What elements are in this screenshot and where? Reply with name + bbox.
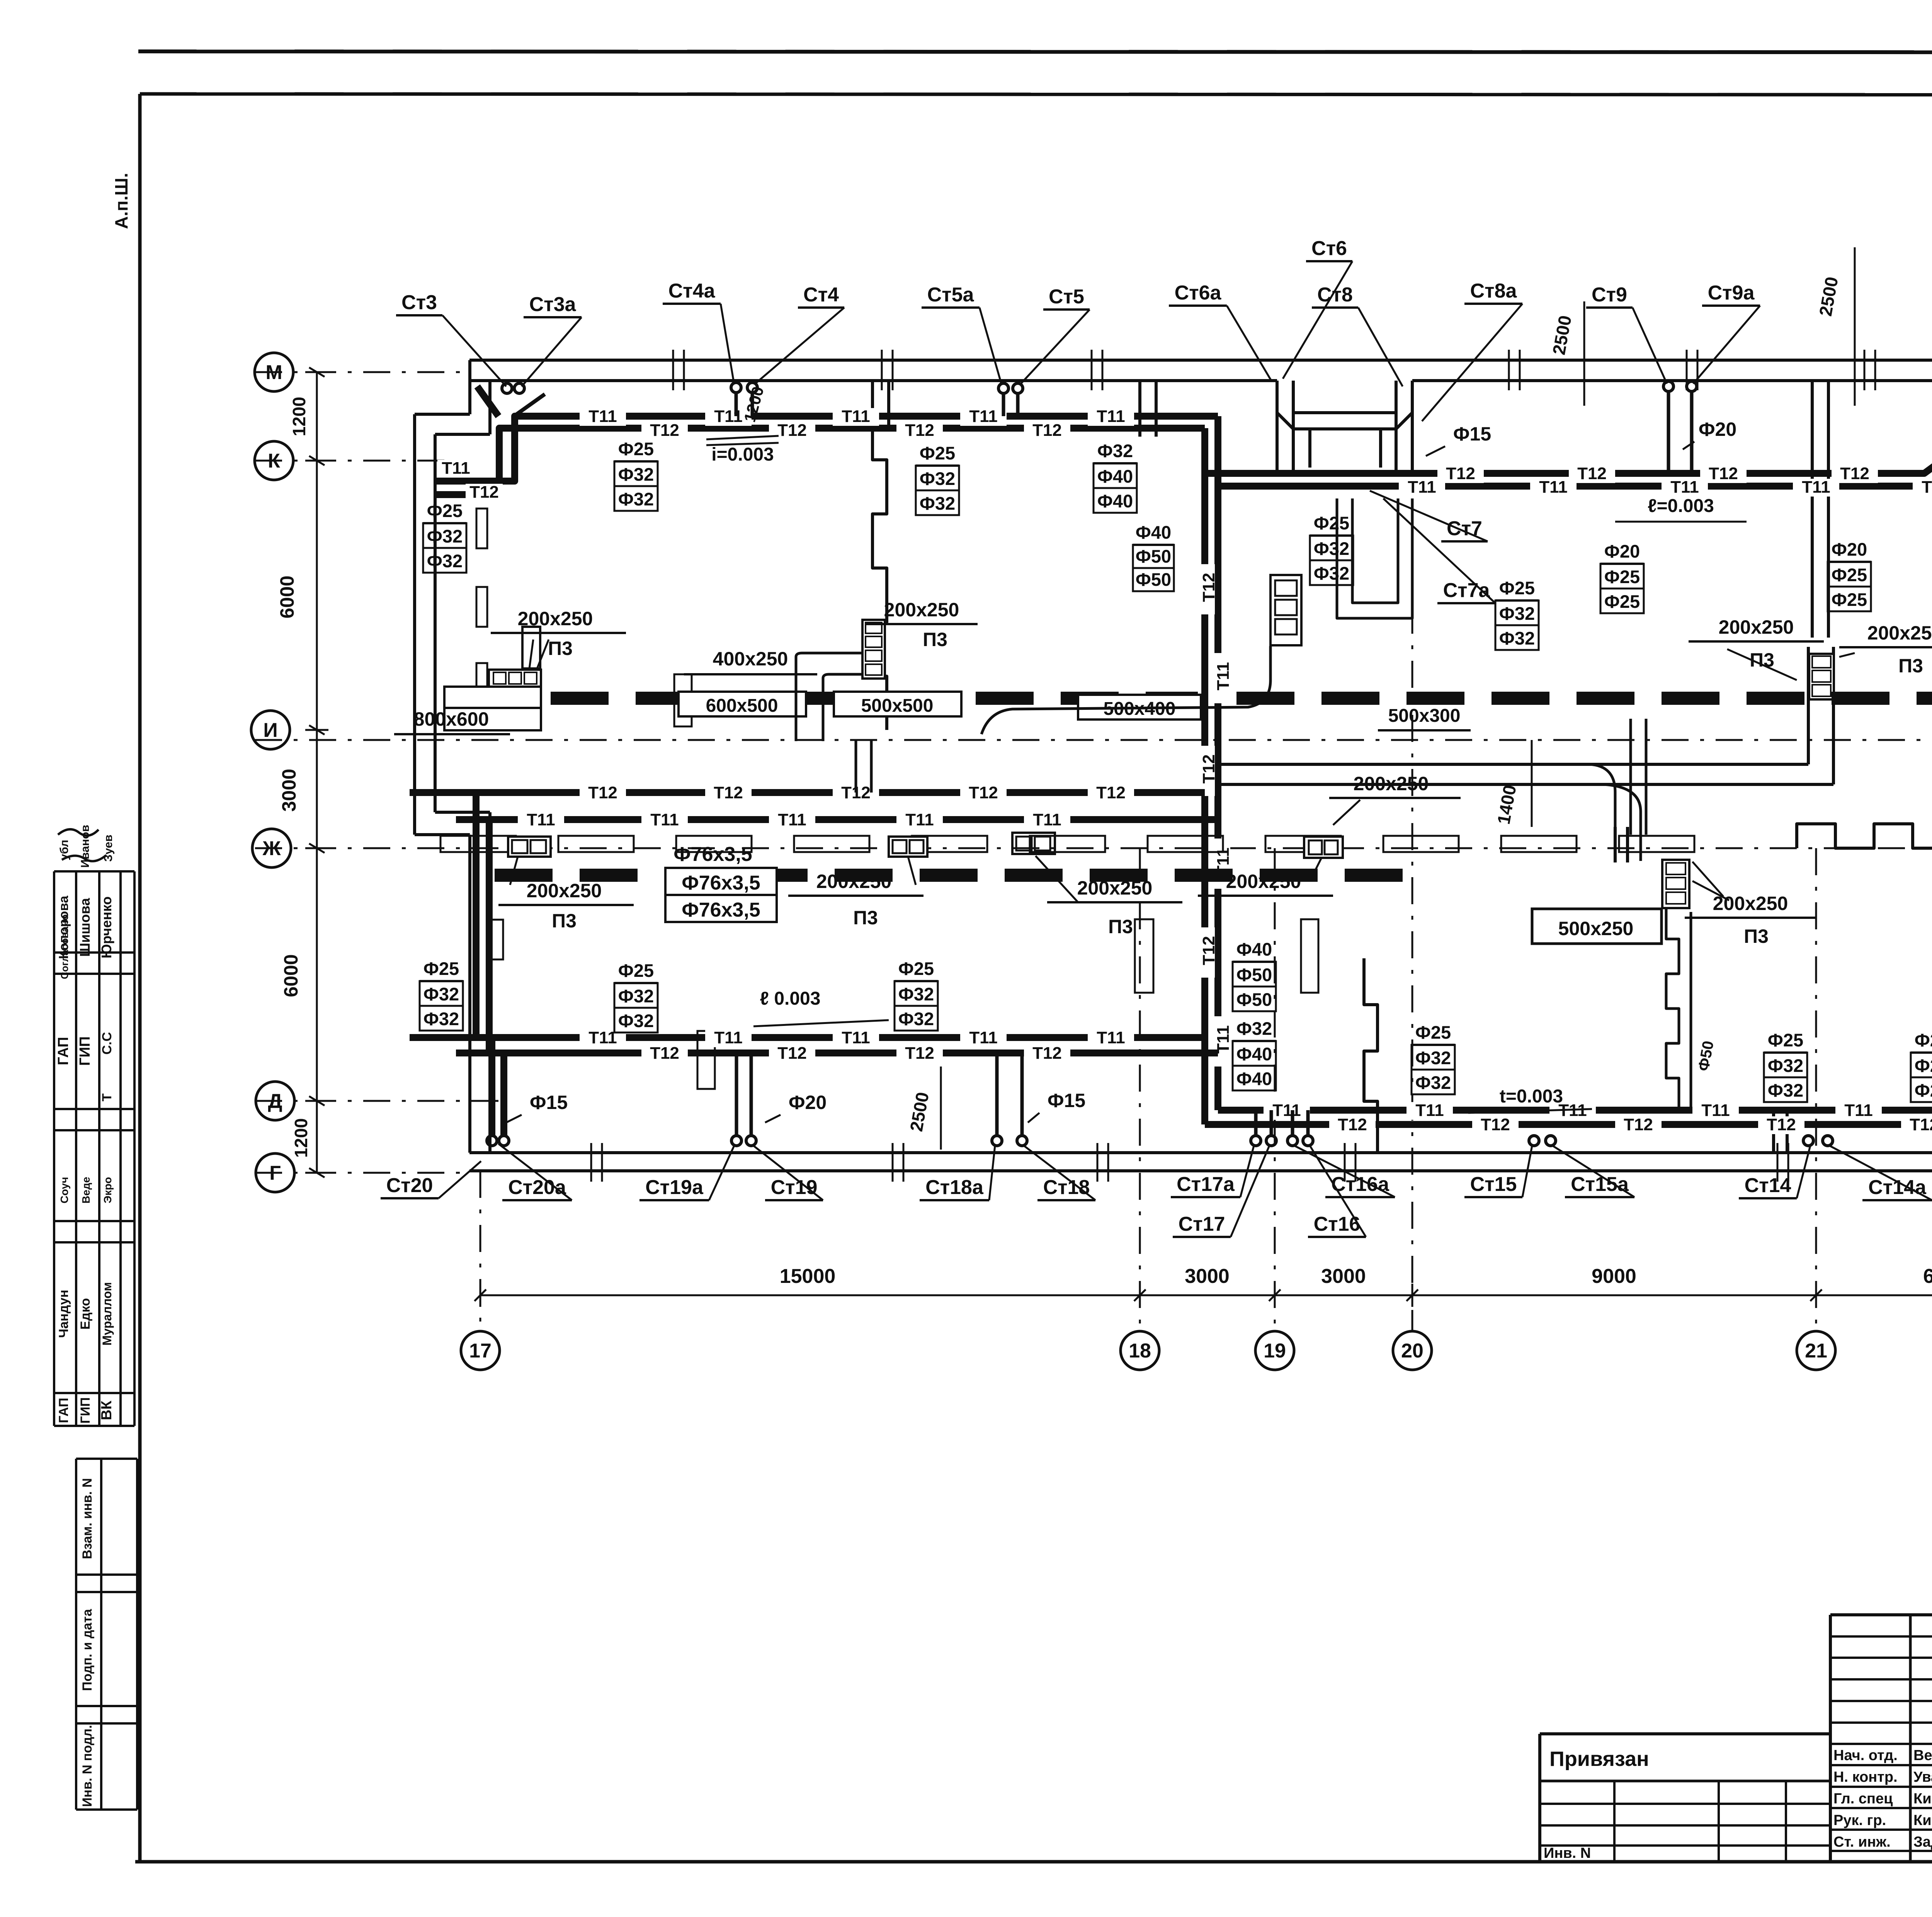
svg-text:П3: П3 bbox=[1108, 916, 1133, 937]
inner wall x4405 bottom bbox=[1772, 1110, 1775, 1153]
duct small box bottom-a bbox=[508, 837, 551, 857]
svg-text:9000: 9000 bbox=[1592, 1265, 1636, 1288]
bottom-left run T11 bbox=[410, 1034, 1205, 1041]
left wall with recess bbox=[468, 360, 471, 414]
svg-text:Т11: Т11 bbox=[842, 407, 870, 426]
svg-text:Ф76x3,5: Ф76x3,5 bbox=[673, 843, 752, 866]
grid line row М bbox=[255, 371, 469, 373]
left stamp lower table bbox=[75, 1459, 77, 1810]
inner wall x4180 lower bbox=[1614, 827, 1617, 862]
pilaster near row И bbox=[674, 674, 692, 726]
grid circle Д bbox=[256, 1082, 294, 1120]
svg-text:Ф25: Ф25 bbox=[1604, 566, 1640, 587]
duct drop elbow from horizontal pair bbox=[1590, 764, 1615, 861]
svg-text:500x300: 500x300 bbox=[1388, 706, 1461, 726]
svg-text:П3: П3 bbox=[548, 638, 573, 659]
svg-text:Ф25: Ф25 bbox=[427, 500, 463, 521]
svg-text:Т12: Т12 bbox=[650, 1044, 679, 1063]
grid vertical 21 bbox=[1815, 848, 1817, 1331]
svg-text:Киселева: Киселева bbox=[1913, 1812, 1932, 1829]
svg-text:Т: Т bbox=[100, 1093, 114, 1101]
svg-text:Т12: Т12 bbox=[1840, 464, 1869, 483]
pilasters bottom rooms bbox=[1135, 919, 1153, 993]
svg-text:600x500: 600x500 bbox=[706, 696, 778, 716]
duct drop pair x2215 bbox=[855, 740, 857, 793]
svg-text:ГИП: ГИП bbox=[78, 1397, 93, 1424]
svg-text:Задина: Задина bbox=[1913, 1834, 1932, 1850]
stair bay walls bbox=[1276, 381, 1279, 471]
svg-text:500x250: 500x250 bbox=[1558, 918, 1634, 939]
svg-text:i=0.003: i=0.003 bbox=[711, 444, 774, 465]
bottom dimension line bbox=[480, 1294, 1932, 1296]
svg-text:Т11: Т11 bbox=[650, 810, 679, 829]
svg-text:Т11: Т11 bbox=[442, 459, 470, 478]
svg-text:П3: П3 bbox=[1744, 925, 1769, 947]
svg-text:Т12: Т12 bbox=[1032, 421, 1062, 440]
duct vertical elbow right bbox=[1629, 719, 1632, 835]
svg-text:П3: П3 bbox=[1898, 655, 1923, 677]
svg-text:Т12: Т12 bbox=[905, 421, 934, 440]
svg-text:Ф32: Ф32 bbox=[423, 1009, 459, 1029]
title block central signature table bbox=[1829, 1615, 1832, 1862]
svg-text:ℓ 0.003: ℓ 0.003 bbox=[760, 988, 821, 1009]
bottom-right run labels bbox=[1264, 1102, 1310, 1120]
pipe T11/T12 top-right labels bbox=[1437, 465, 1484, 483]
svg-text:Т11: Т11 bbox=[778, 810, 806, 829]
svg-text:Т11: Т11 bbox=[1033, 810, 1061, 829]
svg-text:Т12: Т12 bbox=[1096, 783, 1126, 802]
svg-text:Т12: Т12 bbox=[1709, 464, 1738, 483]
svg-text:Ст8а: Ст8а bbox=[1470, 280, 1517, 302]
bottom-right run T12 bbox=[1205, 1121, 1932, 1128]
svg-text:Т11: Т11 bbox=[1670, 478, 1699, 497]
svg-text:Т11: Т11 bbox=[1539, 478, 1567, 497]
svg-text:Рук. гр.: Рук. гр. bbox=[1833, 1812, 1886, 1829]
duct label 500x250 boxed bbox=[1532, 909, 1662, 944]
svg-text:Ф20: Ф20 bbox=[1915, 1030, 1932, 1050]
middle run T11 left half bbox=[456, 816, 1218, 823]
svg-text:Ст20а: Ст20а bbox=[508, 1176, 566, 1199]
handwritten marks above stamp bbox=[58, 829, 99, 835]
svg-text:200x250: 200x250 bbox=[884, 599, 959, 621]
svg-text:Ф32: Ф32 bbox=[427, 526, 463, 546]
duct dashed row И right bbox=[1236, 692, 1932, 705]
middle run T12 left half bbox=[410, 789, 1205, 796]
svg-text:Ф32: Ф32 bbox=[1236, 1018, 1272, 1039]
svg-text:Ф32: Ф32 bbox=[618, 464, 654, 485]
svg-text:Ф40: Ф40 bbox=[1236, 939, 1272, 959]
svg-text:Т11: Т11 bbox=[527, 810, 555, 829]
svg-text:Привязан: Привязан bbox=[1549, 1747, 1649, 1771]
outer top edge line bbox=[138, 51, 1932, 53]
grid circle К bbox=[255, 441, 293, 480]
svg-text:Ф15: Ф15 bbox=[1453, 423, 1491, 445]
central vertical pipe pair bbox=[1201, 428, 1208, 1124]
svg-text:Ф50: Ф50 bbox=[1136, 546, 1171, 566]
svg-text:Т11: Т11 bbox=[969, 407, 997, 426]
duct elbow path center bbox=[981, 646, 1270, 734]
svg-text:1200: 1200 bbox=[291, 1118, 311, 1158]
svg-text:200x250: 200x250 bbox=[1077, 877, 1153, 899]
bottom-right run T11 bbox=[1218, 1107, 1932, 1114]
svg-text:18: 18 bbox=[1129, 1340, 1151, 1362]
svg-text:Т11: Т11 bbox=[969, 1028, 997, 1047]
svg-text:ВК: ВК bbox=[99, 1400, 115, 1420]
svg-text:Ф32: Ф32 bbox=[618, 489, 654, 509]
svg-text:200x250: 200x250 bbox=[1713, 893, 1788, 914]
svg-text:Уварова: Уварова bbox=[1913, 1769, 1932, 1785]
inner wall between rooms x2258 jagged bbox=[872, 428, 887, 730]
svg-text:Ст8: Ст8 bbox=[1317, 284, 1353, 306]
central vertical labels bbox=[1198, 564, 1215, 614]
svg-text:Т11: Т11 bbox=[1844, 1101, 1872, 1120]
wall ticks bottom wall bbox=[590, 1143, 592, 1182]
svg-text:Т12: Т12 bbox=[777, 421, 807, 440]
svg-text:Ст16а: Ст16а bbox=[1331, 1173, 1389, 1196]
svg-text:Ф32: Ф32 bbox=[427, 551, 463, 571]
svg-text:Ф32: Ф32 bbox=[920, 468, 955, 489]
svg-text:Ст9: Ст9 bbox=[1592, 284, 1627, 306]
svg-text:Ст14а: Ст14а bbox=[1868, 1176, 1927, 1199]
svg-text:Т12: Т12 bbox=[588, 783, 617, 802]
riser stubs bottom-right bbox=[1254, 1110, 1258, 1136]
svg-text:17: 17 bbox=[469, 1340, 492, 1362]
svg-text:Т12: Т12 bbox=[1910, 1115, 1932, 1134]
svg-text:19: 19 bbox=[1264, 1340, 1286, 1362]
svg-text:ГИП: ГИП bbox=[77, 1036, 93, 1066]
svg-text:6000: 6000 bbox=[1923, 1265, 1932, 1288]
svg-text:Ф32: Ф32 bbox=[898, 984, 934, 1004]
duct elbow 400x250 bbox=[795, 657, 798, 741]
svg-text:Т11: Т11 bbox=[1272, 1101, 1301, 1120]
svg-text:6000: 6000 bbox=[276, 575, 298, 618]
svg-text:1200: 1200 bbox=[289, 397, 309, 436]
svg-text:Т12: Т12 bbox=[1199, 573, 1218, 602]
svg-text:Т12: Т12 bbox=[1199, 754, 1218, 784]
svg-text:Т11: Т11 bbox=[905, 810, 934, 829]
inner wall right x4690 bbox=[1811, 381, 1814, 638]
svg-text:Ф25: Ф25 bbox=[1832, 565, 1867, 585]
svg-text:Ф25: Ф25 bbox=[618, 960, 654, 981]
svg-text:Ф25: Ф25 bbox=[898, 958, 934, 979]
svg-text:Т12: Т12 bbox=[1767, 1115, 1796, 1134]
svg-text:Т11: Т11 bbox=[714, 407, 742, 426]
svg-text:Шишова: Шишова bbox=[77, 898, 93, 957]
svg-text:К: К bbox=[268, 450, 280, 472]
svg-text:Т12: Т12 bbox=[1032, 1044, 1062, 1063]
svg-text:Ф40: Ф40 bbox=[1097, 466, 1133, 486]
svg-text:3000: 3000 bbox=[1185, 1265, 1230, 1288]
bottom-left run risers to wall bbox=[488, 1038, 495, 1136]
svg-text:Т11: Т11 bbox=[1097, 1028, 1125, 1047]
svg-text:Ф25: Ф25 bbox=[1499, 578, 1535, 598]
svg-text:200x250: 200x250 bbox=[1354, 773, 1429, 794]
svg-text:Ф20: Ф20 bbox=[1604, 541, 1640, 561]
svg-text:Ф32: Ф32 bbox=[1314, 538, 1349, 559]
svg-text:Ф20: Ф20 bbox=[1699, 418, 1736, 440]
svg-text:Ст18: Ст18 bbox=[1043, 1176, 1090, 1199]
grid line row Д dash-dot bbox=[255, 1100, 498, 1102]
svg-text:Ст4: Ст4 bbox=[803, 284, 839, 306]
pipe T12 top-right run with corner riser to Ст10 bbox=[1205, 383, 1932, 473]
svg-text:Инв. N подл.: Инв. N подл. bbox=[80, 1725, 95, 1807]
svg-text:Ф50: Ф50 bbox=[1236, 989, 1272, 1010]
svg-text:Ф25: Ф25 bbox=[1915, 1080, 1932, 1101]
svg-text:200x250: 200x250 bbox=[518, 608, 593, 629]
duct small box bottom-b bbox=[889, 837, 927, 857]
svg-text:Н. контр.: Н. контр. bbox=[1833, 1769, 1898, 1785]
П3 riser box right-center bbox=[1662, 860, 1689, 908]
svg-text:Ф25: Ф25 bbox=[1314, 513, 1349, 533]
svg-text:Т11: Т11 bbox=[1097, 407, 1125, 426]
П3 box on duct x4680 bbox=[1809, 654, 1834, 699]
svg-text:Ф32: Ф32 bbox=[1314, 563, 1349, 583]
bottom grid circle 18 bbox=[1121, 1331, 1159, 1370]
svg-text:Ф32: Ф32 bbox=[618, 1010, 654, 1031]
grid circle И bbox=[251, 711, 290, 749]
svg-text:Ф76x3,5: Ф76x3,5 bbox=[682, 899, 760, 921]
svg-text:Ф25: Ф25 bbox=[920, 443, 955, 463]
svg-text:Ф32: Ф32 bbox=[423, 984, 459, 1004]
svg-text:Ст5а: Ст5а bbox=[927, 284, 975, 306]
grid circle Г bbox=[256, 1153, 294, 1192]
svg-text:Т11: Т11 bbox=[1922, 478, 1932, 497]
duct label 500x500 bbox=[834, 692, 961, 716]
svg-text:Согласовано: Согласовано bbox=[59, 914, 70, 979]
svg-text:Ф25: Ф25 bbox=[1915, 1055, 1932, 1076]
svg-text:Ст3: Ст3 bbox=[401, 291, 437, 314]
svg-text:Ф40: Ф40 bbox=[1097, 491, 1133, 511]
svg-text:Ф25: Ф25 bbox=[1415, 1022, 1451, 1043]
top-left corner diagonal pipe bbox=[477, 386, 498, 416]
duct small box bottom-c bbox=[1012, 833, 1055, 854]
grid vertical 18 bbox=[1139, 848, 1141, 1331]
svg-text:И: И bbox=[263, 719, 277, 742]
svg-text:Т12: Т12 bbox=[1199, 936, 1218, 965]
pipe T12 top-left run bbox=[435, 428, 1205, 495]
svg-text:П3: П3 bbox=[923, 629, 947, 650]
svg-text:200x250: 200x250 bbox=[1867, 622, 1932, 644]
middle-left run labels bbox=[580, 784, 626, 802]
svg-text:Подп. и дата: Подп. и дата bbox=[80, 1609, 95, 1691]
duct outline rects row Ж bbox=[440, 836, 516, 852]
svg-text:6000: 6000 bbox=[280, 954, 302, 997]
grid line row К bbox=[255, 460, 448, 462]
svg-text:Ст4а: Ст4а bbox=[668, 280, 716, 302]
svg-text:15000: 15000 bbox=[780, 1265, 836, 1288]
svg-text:Юрченко: Юрченко bbox=[99, 896, 114, 958]
svg-text:Ф20: Ф20 bbox=[789, 1092, 827, 1113]
grid line row И bbox=[255, 739, 1932, 741]
pilasters left wall bbox=[476, 509, 487, 548]
svg-text:Т11: Т11 bbox=[588, 1028, 617, 1047]
title block attach table Привязан bbox=[1540, 1732, 1830, 1735]
svg-text:Едко: Едко bbox=[78, 1298, 93, 1330]
grid circle М bbox=[255, 353, 293, 391]
svg-text:Ст19: Ст19 bbox=[771, 1176, 818, 1199]
svg-text:Ф32: Ф32 bbox=[618, 986, 654, 1006]
duct dashed row below Ж bbox=[495, 869, 1410, 882]
svg-text:Т12: Т12 bbox=[1624, 1115, 1653, 1134]
grid line row Г bbox=[255, 1172, 469, 1174]
svg-text:Ф32: Ф32 bbox=[1415, 1048, 1451, 1068]
svg-text:Г: Г bbox=[269, 1162, 281, 1184]
svg-text:400x250: 400x250 bbox=[713, 648, 788, 670]
svg-text:Т11: Т11 bbox=[588, 407, 617, 426]
riser detail near Ст18 bbox=[995, 1053, 999, 1136]
svg-text:Гл. спец: Гл. спец bbox=[1833, 1791, 1893, 1807]
svg-text:Кирпикова: Кирпикова bbox=[1913, 1791, 1932, 1807]
svg-text:21: 21 bbox=[1805, 1340, 1827, 1362]
svg-text:Т12: Т12 bbox=[650, 421, 679, 440]
duct dashed row И left bbox=[551, 692, 1198, 705]
svg-text:Веде: Веде bbox=[80, 1177, 92, 1203]
svg-text:Ф32: Ф32 bbox=[1499, 603, 1535, 624]
svg-text:200x250: 200x250 bbox=[527, 880, 602, 902]
svg-text:Ф50: Ф50 bbox=[1136, 569, 1171, 590]
svg-text:Нач. отд.: Нач. отд. bbox=[1833, 1747, 1898, 1764]
svg-text:Т11: Т11 bbox=[1802, 478, 1830, 497]
svg-text:Ст. инж.: Ст. инж. bbox=[1833, 1834, 1891, 1850]
svg-text:Ф20: Ф20 bbox=[1832, 539, 1867, 560]
left stamp upper table bbox=[53, 871, 55, 1426]
svg-text:Вепринцева: Вепринцева bbox=[1913, 1747, 1932, 1764]
svg-text:М: М bbox=[265, 361, 282, 384]
grid vertical 19 bbox=[1274, 848, 1276, 1331]
corner labels T11 T12 bbox=[437, 460, 474, 477]
svg-text:Ст17а: Ст17а bbox=[1177, 1173, 1235, 1196]
svg-text:ГАП: ГАП bbox=[56, 1398, 71, 1423]
svg-text:3000: 3000 bbox=[1321, 1265, 1366, 1288]
riser detail near Ст19 bbox=[735, 1053, 738, 1136]
svg-text:Ст6а: Ст6а bbox=[1175, 282, 1222, 304]
crenellated wall row Ж right bbox=[1797, 824, 1932, 848]
svg-text:800x600: 800x600 bbox=[414, 708, 489, 730]
grid vertical 17 bbox=[480, 1171, 481, 1331]
svg-text:Ст6: Ст6 bbox=[1311, 237, 1347, 260]
grid line row Ж bbox=[255, 847, 1932, 849]
svg-text:20: 20 bbox=[1401, 1340, 1423, 1362]
svg-text:Ф32: Ф32 bbox=[1768, 1080, 1803, 1101]
svg-text:Ф25: Ф25 bbox=[1832, 589, 1867, 610]
svg-text:Инв. N: Инв. N bbox=[1544, 1845, 1591, 1861]
svg-text:Т12: Т12 bbox=[1481, 1115, 1510, 1134]
top wall row M bbox=[469, 359, 1932, 362]
bottom grid circle 19 bbox=[1255, 1331, 1294, 1370]
riser stubs top wall circles bbox=[502, 383, 512, 393]
svg-text:Т12: Т12 bbox=[714, 783, 743, 802]
duct label 500x400 bbox=[1078, 695, 1201, 720]
svg-text:ГАП: ГАП bbox=[55, 1037, 71, 1065]
svg-text:Ф15: Ф15 bbox=[1048, 1090, 1085, 1111]
wall ticks top wall bbox=[672, 350, 674, 390]
duct horizontal pair right of center bbox=[1221, 763, 1808, 766]
svg-text:ℓ=0.003: ℓ=0.003 bbox=[1648, 496, 1714, 516]
svg-text:Ф15: Ф15 bbox=[530, 1092, 568, 1113]
inner wall stub x2950 bbox=[1138, 381, 1141, 437]
svg-text:Ф32: Ф32 bbox=[1768, 1055, 1803, 1076]
П3 riser box col18 bbox=[862, 620, 885, 679]
bottom grid circle 21 bbox=[1797, 1331, 1835, 1370]
svg-text:Ст5: Ст5 bbox=[1049, 286, 1084, 308]
left dimension line bbox=[316, 372, 318, 1173]
svg-text:Т12: Т12 bbox=[1446, 464, 1475, 483]
svg-text:Мураллом: Мураллом bbox=[100, 1282, 114, 1345]
svg-text:Ф40: Ф40 bbox=[1236, 1044, 1272, 1064]
svg-text:t=0.003: t=0.003 bbox=[1500, 1086, 1563, 1107]
bottom grid circle 17 bbox=[461, 1331, 500, 1370]
svg-text:Т11: Т11 bbox=[1408, 478, 1436, 497]
svg-text:Ф25: Ф25 bbox=[1768, 1030, 1803, 1050]
grid vertical 20 bbox=[1412, 553, 1413, 1331]
riser stubs top wall bbox=[735, 393, 738, 416]
svg-text:Ст17: Ст17 bbox=[1179, 1213, 1225, 1235]
bottom wall row Г bbox=[469, 1151, 1932, 1154]
svg-text:Ст19а: Ст19а bbox=[645, 1176, 704, 1199]
duct label 600x500 bbox=[679, 692, 806, 716]
svg-text:200x250: 200x250 bbox=[1719, 616, 1794, 638]
svg-text:Экро: Экро bbox=[102, 1177, 114, 1203]
bottom-left run T12 bbox=[456, 1050, 1218, 1056]
svg-text:Т12: Т12 bbox=[969, 783, 998, 802]
svg-text:С.С: С.С bbox=[100, 1032, 114, 1055]
svg-text:Ф32: Ф32 bbox=[920, 493, 955, 514]
svg-text:Т11: Т11 bbox=[1415, 1101, 1444, 1120]
pipe T11 top-right run bbox=[1218, 400, 1932, 486]
svg-text:Д: Д bbox=[268, 1090, 282, 1112]
svg-text:Чандун: Чандун bbox=[56, 1290, 71, 1338]
svg-text:Ф40: Ф40 bbox=[1236, 1068, 1272, 1089]
svg-text:Ст20: Ст20 bbox=[386, 1174, 433, 1197]
svg-text:Т12: Т12 bbox=[905, 1044, 934, 1063]
svg-text:Т12: Т12 bbox=[1577, 464, 1607, 483]
bottom-left run labels bbox=[580, 1029, 626, 1047]
svg-text:Ф25: Ф25 bbox=[423, 958, 459, 979]
svg-text:Ж: Ж bbox=[262, 837, 281, 860]
svg-text:200x250: 200x250 bbox=[1226, 871, 1301, 892]
svg-text:Соуч: Соуч bbox=[58, 1177, 70, 1204]
svg-text:Т11: Т11 bbox=[842, 1028, 870, 1047]
frame border rectangle bbox=[140, 94, 1932, 95]
grid circle Ж bbox=[252, 829, 291, 867]
svg-text:Ст15: Ст15 bbox=[1470, 1173, 1517, 1196]
svg-text:Взам. инв. N: Взам. инв. N bbox=[80, 1478, 95, 1559]
svg-text:Т11: Т11 bbox=[1214, 662, 1233, 690]
svg-text:Т12: Т12 bbox=[777, 1044, 807, 1063]
svg-text:500x500: 500x500 bbox=[861, 696, 934, 716]
svg-text:Ф50: Ф50 bbox=[1236, 964, 1272, 985]
svg-text:200x250: 200x250 bbox=[816, 871, 892, 892]
svg-text:А.п.Ш.: А.п.Ш. bbox=[111, 173, 131, 229]
svg-text:Т11: Т11 bbox=[1701, 1101, 1730, 1120]
pipe T11 top-left labels bbox=[580, 408, 626, 426]
svg-text:Ф32: Ф32 bbox=[898, 1009, 934, 1029]
svg-text:Ф25: Ф25 bbox=[1604, 591, 1640, 612]
svg-text:Ф32: Ф32 bbox=[1499, 628, 1535, 648]
svg-text:Т11: Т11 bbox=[714, 1028, 742, 1047]
svg-text:Ст3а: Ст3а bbox=[529, 293, 577, 316]
svg-text:Т11: Т11 bbox=[1214, 1025, 1233, 1053]
pipe T11 top-left run bbox=[435, 416, 1218, 481]
svg-text:Ф40: Ф40 bbox=[1136, 522, 1171, 543]
svg-text:Т12: Т12 bbox=[469, 483, 499, 502]
svg-text:Т12: Т12 bbox=[1338, 1115, 1367, 1134]
jagged duct down from П3 box bbox=[1666, 908, 1679, 1109]
duct riser stack top-left bbox=[522, 627, 540, 668]
svg-text:Ф32: Ф32 bbox=[1415, 1072, 1451, 1093]
bay U-duct below bbox=[1337, 498, 1412, 618]
svg-text:Ст18а: Ст18а bbox=[925, 1176, 984, 1199]
